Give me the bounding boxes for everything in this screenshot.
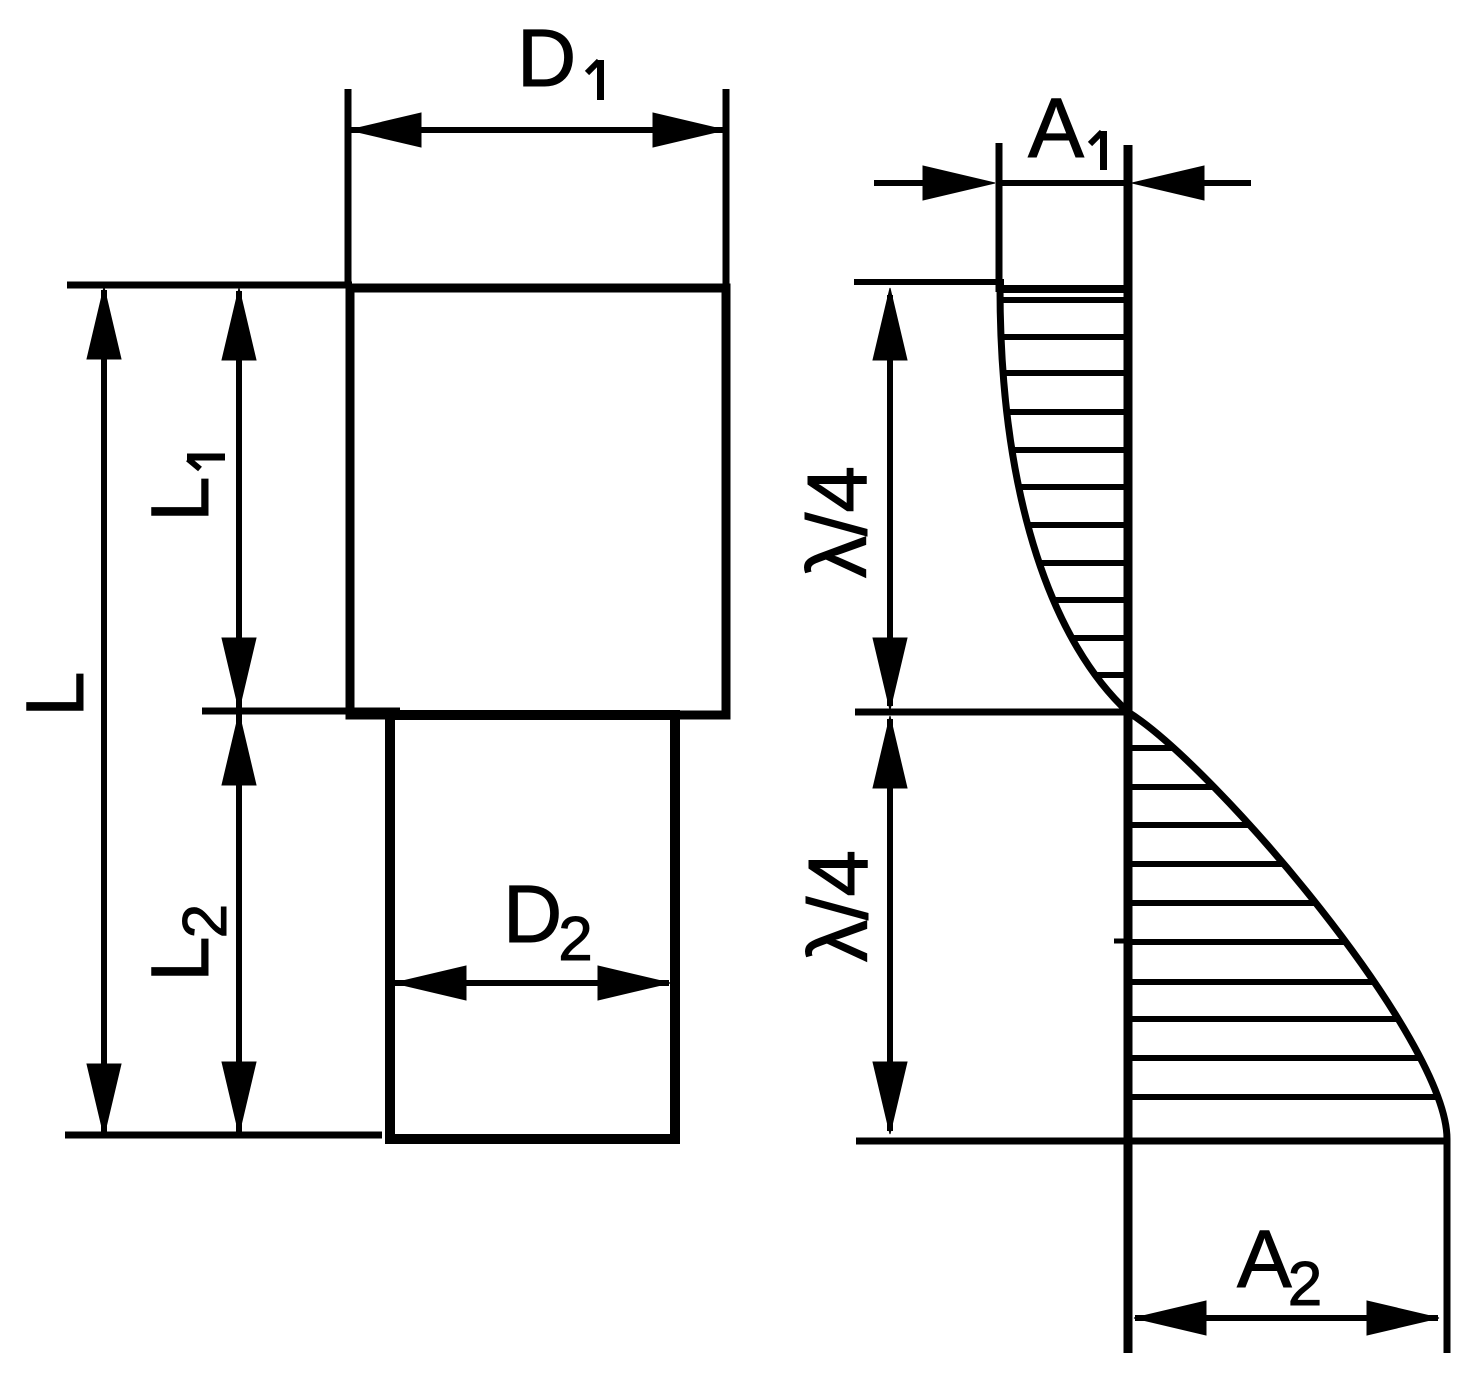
dimension lambda/4 lower line (887, 719, 893, 1131)
dimension L1 line (236, 291, 242, 709)
horn large step section outline (350, 288, 726, 715)
horn small step section outline (390, 715, 675, 1139)
dimension D2 line (395, 980, 669, 986)
dimension A1 right arrow (1196, 180, 1251, 186)
svg-text:L2: L2 (135, 904, 240, 982)
dimension lambda/4 upper line (887, 295, 893, 706)
svg-text:A2: A2 (1237, 1214, 1322, 1319)
amplitude axis vertical line (1124, 145, 1133, 1353)
dimension A1 middle line (999, 180, 1128, 186)
svg-text:λ/4: λ/4 (791, 850, 885, 962)
top reference line (854, 279, 1004, 285)
svg-text:L: L (10, 671, 101, 717)
dimension A1 left arrow (874, 180, 930, 186)
amplitude curve lower quarter-wave with extension (1128, 712, 1447, 1353)
svg-text:A: A (1028, 81, 1084, 175)
extension line D1 right (723, 89, 730, 288)
node line (855, 709, 1128, 716)
hatch top boundary line (999, 285, 1128, 293)
dimension D1 line (351, 127, 723, 133)
amplitude curve upper quarter-wave (1000, 287, 1128, 712)
extension line bottom (65, 1132, 382, 1139)
dimension L2 line (236, 714, 242, 1133)
svg-text:λ/4: λ/4 (790, 466, 884, 578)
extension line top (67, 282, 352, 289)
extension line at step (202, 708, 400, 715)
small tick on axis (1114, 939, 1129, 944)
svg-text:D2: D2 (503, 869, 593, 974)
bottom reference line (856, 1138, 1449, 1145)
hatching lower section (1130, 748, 1438, 1097)
svg-text:L: L (135, 476, 226, 522)
svg-text:D: D (517, 13, 576, 104)
dimension L line (101, 290, 107, 1134)
extension line A1 left (996, 143, 1003, 292)
extension line D1 left (345, 89, 352, 288)
dimension A2 line (1135, 1315, 1438, 1321)
hatching upper section (1000, 300, 1126, 675)
